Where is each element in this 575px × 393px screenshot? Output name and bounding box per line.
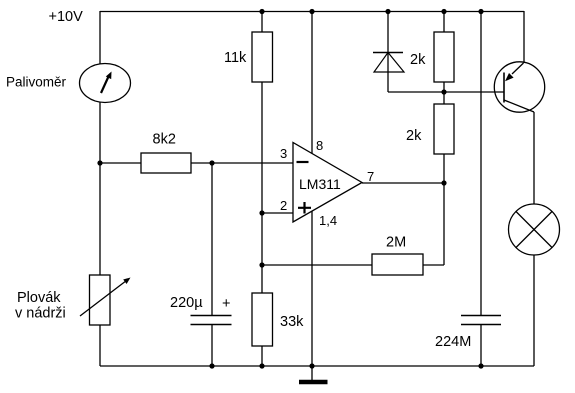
svg-text:3: 3 [280, 146, 287, 161]
svg-text:v nádrži: v nádrži [15, 306, 66, 322]
svg-text:+10V: +10V [49, 9, 84, 25]
svg-text:Palivoměr: Palivoměr [6, 75, 67, 90]
svg-text:2M: 2M [386, 235, 406, 251]
svg-text:2k: 2k [406, 128, 422, 144]
svg-text:1,4: 1,4 [319, 213, 337, 228]
svg-text:2: 2 [280, 198, 287, 213]
svg-text:7: 7 [367, 169, 374, 184]
svg-text:33k: 33k [280, 314, 304, 330]
svg-text:220µ: 220µ [170, 295, 203, 311]
svg-text:224M: 224M [435, 334, 471, 350]
svg-text:+: + [222, 296, 230, 312]
svg-text:LM311: LM311 [299, 176, 341, 192]
svg-text:2k: 2k [410, 52, 426, 68]
svg-text:8: 8 [316, 138, 323, 153]
svg-text:11k: 11k [224, 50, 247, 66]
svg-text:8k2: 8k2 [153, 132, 176, 148]
svg-text:Plovák: Plovák [17, 290, 61, 306]
